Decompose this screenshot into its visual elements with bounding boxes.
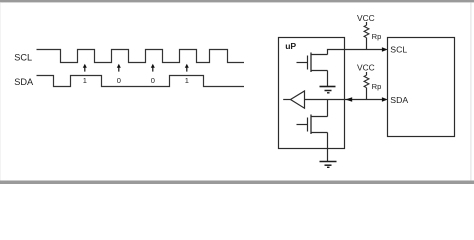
svg-text:Rp: Rp bbox=[372, 82, 382, 91]
transistor Q1 SCL open-drain MOSFET bbox=[297, 53, 328, 73]
wire SCL clock waveform trace bbox=[37, 50, 245, 63]
wire Q1 source down to ground bbox=[327, 71, 329, 87]
svg-text:1: 1 bbox=[185, 76, 189, 85]
wire Q2 drain up to SDA net bbox=[327, 100, 329, 117]
svg-text:SDA: SDA bbox=[390, 95, 408, 105]
svg-text:SCL: SCL bbox=[390, 45, 407, 55]
resistor R2 Rp pull-up on SDA bbox=[364, 72, 369, 100]
resistor R1 Rp pull-up on SCL bbox=[364, 22, 369, 50]
sample arrow 2 bbox=[117, 64, 121, 72]
svg-text:uP: uP bbox=[285, 41, 296, 51]
op-amp input buffer A1 triangle bbox=[283, 91, 304, 108]
wire Q2 source down through box to ground bbox=[327, 133, 329, 162]
svg-text:SDA: SDA bbox=[14, 77, 34, 87]
sample arrow 3 bbox=[151, 64, 155, 72]
ground G1 bbox=[320, 87, 336, 93]
sample arrow 4 bbox=[185, 64, 189, 72]
svg-text:VCC: VCC bbox=[357, 63, 375, 73]
arrowhead SDA into slave bbox=[382, 97, 388, 102]
sample arrow 1 bbox=[83, 64, 87, 72]
uP block U1 box bbox=[279, 38, 345, 149]
wire Q1 drain to SCL net with arrowhead into slave bbox=[328, 47, 388, 54]
slave device U2 box bbox=[388, 38, 455, 137]
svg-text:Rp: Rp bbox=[372, 32, 382, 41]
svg-text:0: 0 bbox=[151, 76, 155, 85]
wire SDA data waveform trace bbox=[37, 76, 245, 87]
wire SDA net from buffer through box to slave bbox=[305, 99, 383, 101]
svg-text:SCL: SCL bbox=[14, 53, 32, 63]
ground G2 bbox=[320, 162, 337, 168]
svg-text:1: 1 bbox=[83, 76, 87, 85]
transistor Q2 SDA open-drain MOSFET bbox=[297, 115, 328, 135]
arrowhead SDA into uP bbox=[345, 97, 352, 102]
svg-text:0: 0 bbox=[117, 76, 121, 85]
svg-text:VCC: VCC bbox=[357, 13, 375, 23]
